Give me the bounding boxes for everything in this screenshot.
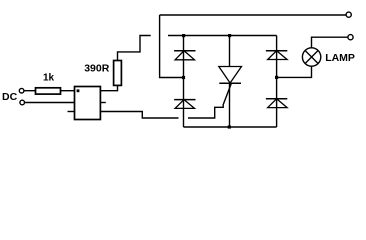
svg-text:390R: 390R (84, 63, 110, 75)
svg-text:LAMP: LAMP (325, 52, 355, 64)
svg-text:1k: 1k (43, 73, 55, 84)
svg-text:DC: DC (2, 91, 18, 103)
